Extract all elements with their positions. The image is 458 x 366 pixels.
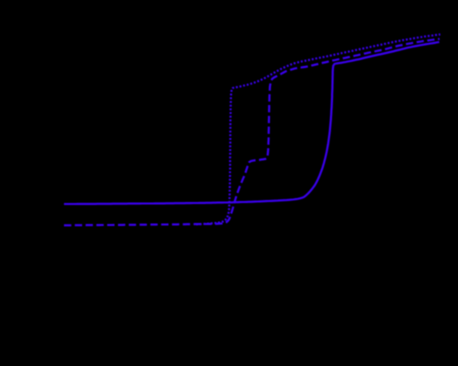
- dotted curve (steepest transition, leftmost rise): [196, 34, 440, 224]
- solid curve (rightmost steep rise): [64, 42, 439, 204]
- dashed curve (two-step transition): [64, 39, 440, 225]
